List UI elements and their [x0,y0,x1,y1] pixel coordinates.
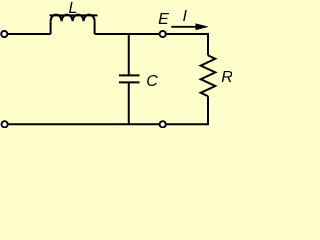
resistor R zigzag [201,55,216,96]
inductor L [50,15,98,34]
terminal: top-left [1,31,7,37]
wire: capacitor branch bottom [128,82,130,124]
wire: resistor bottom lead and bottom rail [4,96,208,124]
wire: top rail right (inductor to top-right corner) and drop to resistor [95,34,208,55]
svg-text:L: L [68,0,77,17]
arrow I (current direction) [171,26,197,28]
wire: top rail left (terminal to inductor) [4,33,50,35]
svg-text:E: E [158,11,169,28]
node E (open circle) [160,31,166,37]
wire: capacitor branch top [128,33,130,75]
svg-text:I: I [182,8,187,25]
capacitor C plates [119,75,140,82]
node: bottom center (open circle) [160,121,166,127]
terminal: bottom-left [2,121,8,127]
svg-text:C: C [146,73,158,90]
svg-text:R: R [221,69,232,86]
